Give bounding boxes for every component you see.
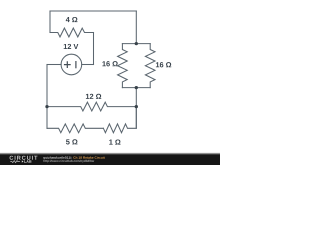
- voltage source V1 circle: [61, 54, 82, 75]
- junction node left of 12 ohm: [45, 105, 48, 108]
- wire bottom-right vertical: [135, 88, 137, 129]
- watermark line 1 title: [73, 156, 104, 158]
- junction node bottom of parallel pair: [135, 86, 138, 89]
- label 16 ohm left: [102, 61, 117, 66]
- wire top-right vertical: [135, 11, 137, 44]
- wire parallel top bar: [122, 43, 150, 45]
- resistor R4 12 ohm: [47, 102, 136, 111]
- junction node top of parallel pair: [135, 42, 138, 45]
- wire source right lead: [82, 64, 94, 66]
- resistor R3 16 ohm right: [145, 44, 155, 88]
- resistor R6 1 ohm: [103, 107, 136, 133]
- resistor R1 4 ohm: [50, 28, 94, 37]
- label 16 ohm right: [156, 62, 171, 67]
- label 12 V: [64, 44, 79, 49]
- label 5 ohm: [66, 139, 78, 144]
- wire left vertical of top loop: [49, 11, 51, 33]
- CircuitLab logo arrow: [22, 160, 24, 162]
- junction node right of 12 ohm: [135, 105, 138, 108]
- watermark line 1 user: [43, 156, 72, 159]
- wire left vertical: [46, 65, 48, 129]
- wire parallel bottom bar: [122, 87, 150, 89]
- CircuitLab logo text LAB: [24, 160, 31, 162]
- watermark line 2 url: [43, 160, 94, 163]
- wire source left lead: [47, 64, 61, 66]
- voltage source plus sign: [65, 62, 71, 68]
- CircuitLab logo resistor squiggle: [10, 161, 20, 163]
- label 12 ohm: [86, 94, 101, 99]
- CircuitLab logo text CIRCUIT: [10, 156, 38, 160]
- wire right vertical of top loop: [93, 33, 95, 65]
- label 1 ohm: [109, 139, 120, 144]
- wire top rail: [50, 10, 136, 12]
- voltage source minus bar: [75, 62, 77, 68]
- label 4 ohm: [66, 17, 78, 22]
- resistor R5 5 ohm: [47, 124, 103, 133]
- resistor R2 16 ohm left: [118, 44, 128, 88]
